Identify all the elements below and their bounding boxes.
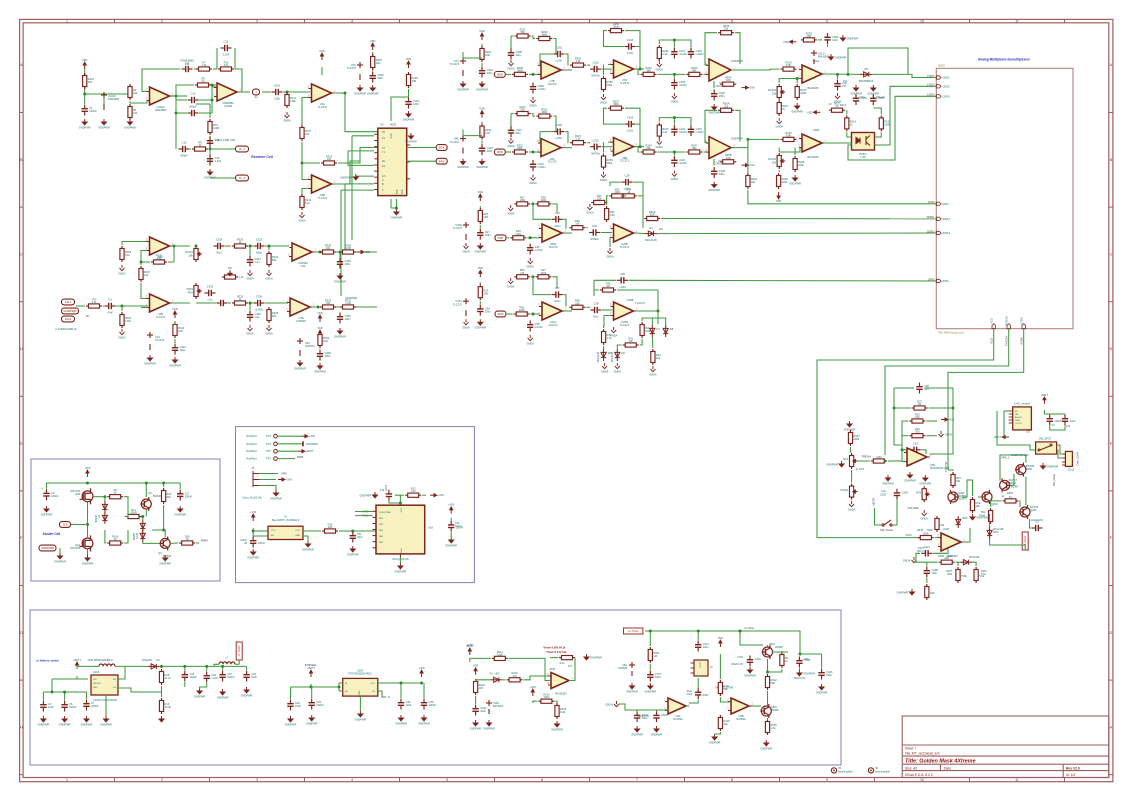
resistor R332 — [318, 332, 322, 348]
svg-text:VDD: VDD — [82, 58, 88, 62]
svg-text:13SX2: 13SX2 — [942, 85, 950, 88]
wire net SCBW — [948, 329, 1024, 470]
ground GNDA — [285, 112, 290, 118]
svg-text:GNDPWR: GNDPWR — [270, 496, 282, 500]
svg-text:330n: 330n — [687, 691, 693, 693]
wire — [259, 473, 278, 475]
ground GNDA — [528, 335, 533, 341]
wire long 2FRS — [629, 279, 937, 282]
svg-text:MountingHole: MountingHole — [838, 770, 853, 773]
capacitor C28 — [916, 383, 922, 394]
junction — [673, 116, 676, 119]
svg-text:GNDPWR: GNDPWR — [760, 746, 772, 750]
capacitor C327 — [405, 98, 411, 109]
junction — [175, 112, 178, 115]
svg-text:GNDA: GNDA — [649, 372, 657, 376]
svg-text:BC868: BC868 — [771, 709, 779, 712]
svg-text:C312: C312 — [687, 694, 693, 696]
wire — [824, 142, 852, 144]
svg-text:GNDA: GNDA — [656, 67, 664, 71]
wire — [195, 246, 197, 248]
power VDD — [777, 192, 780, 199]
power VDD — [319, 315, 322, 322]
svg-text:GNDPWR: GNDPWR — [347, 552, 359, 556]
svg-text:100nF: 100nF — [316, 703, 324, 707]
resistor R30 — [605, 206, 609, 222]
junction — [639, 68, 642, 71]
svg-text:2.2u: 2.2u — [881, 489, 887, 493]
svg-text:Q205: Q205 — [1030, 508, 1037, 512]
wire — [450, 532, 452, 537]
capacitor C5 — [61, 701, 67, 712]
ground GNDA — [615, 363, 620, 369]
transistor Q501 BC868 — [760, 704, 771, 718]
wire — [837, 74, 839, 79]
wire — [339, 690, 343, 692]
resistor R311 — [718, 680, 722, 696]
capacitor C260 — [870, 94, 876, 105]
net tag DSK — [494, 72, 505, 78]
capacitor C28 — [622, 179, 633, 185]
power OSA — [742, 86, 749, 89]
wire — [778, 99, 780, 101]
svg-text:GNDPWR: GNDPWR — [551, 727, 563, 731]
capacitor C320 — [747, 656, 753, 667]
svg-text:R1A: R1A — [560, 662, 565, 665]
power +3V0 — [278, 478, 285, 481]
wire — [587, 64, 590, 66]
capacitor C263 — [824, 33, 830, 44]
svg-text:BC846: BC846 — [163, 554, 171, 558]
inductor L7 — [219, 662, 235, 664]
wire — [767, 691, 769, 706]
net tag JL5 — [60, 522, 71, 528]
wire — [713, 159, 715, 166]
svg-text:GNDA: GNDA — [848, 507, 856, 511]
svg-text:GND: GND — [700, 662, 702, 667]
power VDD — [479, 194, 482, 201]
svg-text:LMX903: LMX903 — [296, 319, 306, 323]
wire — [703, 151, 709, 153]
ground GNDA — [531, 97, 536, 103]
wire — [463, 130, 482, 136]
ground GNDA — [601, 172, 606, 178]
ground GNDA — [608, 248, 613, 254]
wire — [52, 678, 77, 680]
svg-text:100n: 100n — [487, 71, 493, 75]
wire — [747, 139, 749, 173]
svg-text:GNDPWR: GNDPWR — [100, 722, 112, 726]
junction — [140, 261, 143, 264]
svg-text:13SX1: 13SX1 — [927, 75, 935, 78]
svg-text:GNDPWR: GNDPWR — [590, 656, 602, 660]
wire — [253, 530, 268, 532]
capacitor C322 — [247, 311, 253, 322]
wire — [408, 683, 422, 684]
svg-text:D6: D6 — [622, 351, 626, 355]
svg-text:U18: U18 — [428, 526, 433, 530]
svg-text:220uF: 220uF — [91, 704, 99, 708]
svg-text:+5VCC: +5VCC — [1015, 423, 1023, 425]
wire — [563, 147, 572, 149]
net tag FRS — [495, 311, 506, 317]
resistor R207 — [777, 100, 781, 116]
junction — [183, 665, 186, 668]
wire — [673, 40, 675, 47]
wire — [735, 110, 740, 141]
ground GNDA — [267, 325, 272, 331]
net tag JL_4 — [236, 175, 249, 181]
svg-text:KiCad E.D.A. 8.0.2: KiCad E.D.A. 8.0.2 — [905, 773, 933, 777]
wire — [479, 225, 481, 228]
wire — [621, 195, 626, 197]
ground GNDA — [531, 175, 536, 181]
svg-text:GNDPWR: GNDPWR — [355, 717, 367, 721]
resistor R22 — [909, 434, 925, 438]
wire — [659, 40, 691, 47]
wire — [1057, 450, 1062, 458]
capacitor C19 — [386, 490, 392, 501]
svg-text:10R: 10R — [178, 329, 183, 333]
power +BATT — [76, 662, 79, 669]
svg-text:D: D — [1110, 347, 1113, 351]
svg-text:1.5k: 1.5k — [610, 213, 616, 217]
svg-text:750k: 750k — [947, 573, 953, 576]
wire — [210, 177, 236, 179]
svg-text:BAU6283: BAU6283 — [555, 692, 567, 696]
wire — [649, 631, 651, 646]
wire net THRESH — [885, 329, 1009, 455]
svg-text:390k: 390k — [541, 110, 547, 114]
ground GNDPWR bar — [302, 441, 304, 446]
wire — [659, 118, 691, 125]
wire — [1050, 413, 1065, 415]
svg-text:C: C — [20, 252, 23, 256]
svg-text:D8: D8 — [670, 327, 674, 331]
capacitor C227 — [921, 550, 932, 556]
svg-text:GNDPWR: GNDPWR — [476, 87, 488, 91]
power VDD — [941, 418, 948, 421]
wire long 13SX3 — [848, 96, 936, 160]
wire — [481, 44, 483, 47]
ground GNDPWR — [244, 687, 249, 693]
wire — [225, 245, 231, 247]
svg-text:D102: D102 — [136, 532, 139, 538]
wire — [533, 204, 551, 219]
svg-text:GNDA: GNDA — [586, 210, 594, 214]
ground GNDPWR — [630, 683, 635, 689]
svg-text:AG/H3: AG/H3 — [1015, 416, 1022, 419]
ground GNDPWR — [370, 85, 375, 91]
svg-text:RV401: RV401 — [841, 488, 849, 492]
wire DSK out — [407, 147, 436, 149]
svg-text:Q1B: Q1B — [75, 493, 80, 496]
wire — [565, 132, 568, 144]
svg-text:MCL4148: MCL4148 — [598, 351, 600, 362]
svg-text:2DSK1: 2DSK1 — [942, 218, 951, 221]
svg-text:22R: 22R — [948, 555, 953, 558]
svg-text:10k: 10k — [723, 722, 728, 726]
svg-text:GNDPWR: GNDPWR — [285, 722, 297, 726]
svg-text:GNDA: GNDA — [656, 145, 664, 149]
switch SW2 SP3T — [1036, 442, 1057, 454]
resistor R38 — [569, 305, 585, 309]
svg-text:TLC272: TLC272 — [635, 301, 645, 305]
sheet pin VCO — [992, 324, 995, 329]
svg-text:m100n: m100n — [255, 308, 263, 312]
wire — [196, 542, 199, 544]
svg-text:10R: 10R — [412, 79, 417, 83]
ground GNDA — [672, 93, 677, 99]
IC U18 ATtiny202 — [376, 505, 425, 554]
junction — [420, 682, 423, 685]
svg-text:VDD: VDD — [718, 636, 724, 640]
wire — [894, 387, 914, 389]
svg-text:U3: U3 — [380, 123, 384, 127]
svg-text:GNDA: GNDA — [118, 271, 126, 275]
wire — [563, 219, 566, 228]
wire — [658, 151, 686, 153]
svg-text:VDD: VDD — [406, 57, 412, 61]
svg-text:W1u: W1u — [593, 315, 599, 319]
svg-text:TLC272: TLC272 — [450, 140, 460, 144]
wire — [963, 528, 970, 542]
resistor R15 — [159, 669, 163, 685]
svg-text:RN3: RN3 — [188, 290, 194, 294]
junction — [301, 162, 304, 165]
resistor R2A — [478, 284, 482, 300]
svg-text:C15: C15 — [224, 40, 229, 44]
wire — [604, 108, 625, 124]
wire — [686, 705, 689, 707]
power +3V0 — [86, 470, 89, 477]
op-amp U2C power unit — [357, 62, 363, 80]
wire — [529, 73, 540, 75]
ground GNDPWR C326 — [819, 684, 824, 690]
wire — [481, 63, 483, 66]
junction — [268, 245, 271, 248]
ground GNDA — [602, 363, 607, 369]
resistor R247 — [686, 150, 702, 154]
svg-text:D1: D1 — [659, 227, 663, 231]
ground GNDPWR above R307 — [847, 421, 852, 427]
wire — [524, 676, 550, 680]
svg-text:13SX3: 13SX3 — [927, 94, 935, 97]
wire — [651, 318, 653, 325]
svg-text:GNDA: GNDA — [507, 284, 515, 288]
svg-text:10k: 10k — [327, 157, 332, 161]
svg-text:GNDPWR: GNDPWR — [345, 296, 357, 300]
op-amp U160 — [551, 673, 569, 689]
svg-text:GB: GB — [1015, 414, 1019, 416]
capacitor C21 — [350, 532, 356, 543]
ground GNDA — [248, 270, 253, 276]
wire — [540, 132, 553, 144]
wire — [902, 435, 908, 437]
wire — [601, 232, 612, 234]
svg-text:GNDPWR: GNDPWR — [708, 188, 720, 192]
power +3V0 — [450, 507, 453, 514]
wire — [720, 697, 731, 702]
wire — [450, 518, 452, 521]
svg-text:82k: 82k — [272, 314, 277, 318]
svg-text:100n: 100n — [719, 172, 725, 176]
wire — [234, 48, 236, 69]
junction — [286, 91, 289, 94]
capacitor — [217, 300, 228, 306]
wire — [259, 486, 276, 492]
svg-text:TLC272: TLC272 — [547, 82, 557, 86]
capacitor C303 — [553, 128, 564, 134]
wire — [399, 557, 401, 563]
svg-text:GNDPWR: GNDPWR — [395, 721, 407, 725]
ground GNDPWR — [840, 35, 845, 41]
capacitor C4 — [105, 303, 116, 309]
wire — [796, 79, 798, 84]
graphic box MCU — [236, 427, 475, 583]
svg-text:U15: U15 — [861, 155, 866, 159]
wire — [734, 68, 780, 71]
power VDD — [719, 640, 722, 647]
op-amp U11A — [802, 65, 822, 83]
svg-text:UPDI: UPDI — [281, 473, 287, 476]
resistor R253 — [718, 31, 734, 35]
wire — [511, 113, 514, 115]
svg-text:2DSK2: 2DSK2 — [927, 230, 936, 233]
ground GNDPWR — [461, 159, 466, 165]
ground GNDPWR — [41, 716, 46, 722]
svg-text:BC846: BC846 — [153, 494, 161, 498]
wire — [311, 684, 339, 687]
wire — [395, 495, 401, 503]
resistor R8 — [107, 495, 123, 499]
wire — [602, 68, 612, 70]
svg-text:VDD: VDD — [783, 40, 789, 44]
svg-text:TLC272: TLC272 — [620, 159, 630, 163]
wire — [141, 251, 150, 263]
wire — [77, 666, 91, 669]
net tag JAL3 — [62, 316, 75, 322]
svg-text:6: 6 — [541, 778, 543, 782]
svg-text:150R: 150R — [130, 511, 136, 515]
ground GNDPWR — [923, 475, 928, 481]
ground GNDPWR — [712, 104, 717, 110]
wire — [163, 483, 165, 487]
resistor R35B — [720, 160, 736, 164]
svg-text:m100n: m100n — [535, 248, 543, 252]
svg-text:2.2k: 2.2k — [662, 130, 668, 134]
svg-text:56R: 56R — [771, 681, 776, 685]
junction — [739, 630, 742, 633]
wire — [926, 435, 937, 437]
svg-text:C215: C215 — [592, 61, 599, 65]
ground GNDPWR U102 — [104, 716, 109, 722]
op-amp U7B — [541, 61, 561, 79]
wire — [636, 710, 638, 711]
power +BATT — [1043, 397, 1046, 404]
svg-text:100n: 100n — [325, 354, 331, 358]
power +BATT — [310, 670, 313, 677]
wire — [302, 142, 320, 163]
wire — [930, 388, 954, 454]
svg-text:GNDA: GNDA — [283, 118, 291, 122]
resistor R38 — [535, 202, 551, 206]
svg-text:GNDPWR: GNDPWR — [709, 740, 721, 744]
svg-text:C12: C12 — [191, 92, 196, 96]
ground GNDA — [849, 501, 854, 507]
wire — [531, 276, 534, 278]
capacitor C38 — [590, 307, 601, 313]
wire — [673, 118, 675, 125]
svg-text:2DSK1: 2DSK1 — [927, 216, 936, 219]
resistor R4 — [86, 304, 102, 308]
resistor R239 — [641, 72, 657, 76]
wire node bias — [85, 93, 130, 95]
svg-text:82k: 82k — [272, 258, 277, 262]
power VDD — [319, 330, 322, 337]
svg-text:GNDPWR: GNDPWR — [360, 494, 372, 498]
svg-text:BAU6283: BAU6283 — [807, 86, 819, 90]
svg-text:JL_4: JL_4 — [239, 176, 246, 180]
svg-text:GNDPWR: GNDPWR — [457, 165, 469, 169]
junction — [211, 99, 214, 102]
wire — [176, 96, 187, 100]
svg-text:GNDA: GNDA — [507, 211, 515, 215]
capacitor C29 — [527, 244, 533, 255]
svg-text:68k: 68k — [647, 146, 652, 150]
IC U102 regulator — [91, 675, 118, 695]
wire net VCO — [817, 329, 994, 538]
op-amp U6B — [731, 698, 749, 714]
svg-text:100nF: 100nF — [429, 703, 437, 707]
wire — [104, 523, 106, 524]
svg-text:TLC272: TLC272 — [318, 196, 328, 200]
wire — [608, 141, 612, 143]
wire — [529, 151, 540, 153]
svg-text:U102: U102 — [93, 671, 100, 674]
wire — [103, 305, 104, 307]
wire — [116, 305, 148, 307]
mounting hole H4 — [868, 768, 873, 773]
resistor R206 — [781, 137, 797, 141]
wire — [302, 163, 309, 180]
svg-text:39k: 39k — [751, 180, 756, 184]
ground GNDA — [508, 205, 513, 211]
ground GNDA — [611, 327, 616, 333]
svg-text:VCC: VCC — [271, 530, 276, 532]
resistor R319 — [321, 161, 337, 165]
resistor R311 — [285, 92, 289, 108]
svg-text:100n: 100n — [345, 317, 351, 321]
wire — [639, 47, 641, 70]
svg-text:2: 2 — [161, 19, 163, 23]
wire — [527, 237, 540, 239]
op-amp U4B — [290, 298, 310, 316]
svg-text:GNDA: GNDA — [265, 276, 273, 280]
svg-text:100n: 100n — [487, 149, 493, 153]
svg-text:VDD: VDD — [949, 418, 955, 422]
svg-text:TP3: TP3 — [266, 442, 271, 446]
svg-text:68k: 68k — [647, 68, 652, 72]
svg-text:WN70n: WN70n — [591, 74, 600, 78]
svg-text:GNDPWR: GNDPWR — [334, 279, 346, 283]
resistor R37 — [535, 275, 551, 279]
wire — [656, 710, 658, 711]
wire — [86, 483, 88, 484]
wire — [77, 676, 88, 679]
svg-text:750k: 750k — [961, 574, 967, 578]
svg-text:TLC272: TLC272 — [453, 226, 463, 230]
